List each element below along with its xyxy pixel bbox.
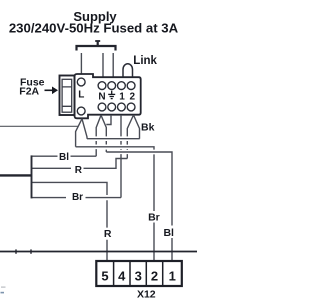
fuse pointer arrow shaft [45, 89, 54, 91]
pin 1 wire [120, 115, 122, 198]
svg-text:L: L [78, 90, 84, 101]
svg-text:5: 5 [101, 268, 108, 283]
terminal hole 2 bottom [127, 103, 135, 111]
wires leaving plug [76, 115, 172, 262]
svg-text:Bl: Bl [59, 152, 69, 163]
left bus vertical [31, 155, 33, 198]
left bus wires [32, 156, 128, 262]
terminal hole earth bottom [108, 103, 116, 111]
pin 2 wire left (tent C) [127, 115, 133, 159]
long horizontal line bottom [0, 251, 197, 253]
screw hole bottom L [77, 107, 85, 115]
svg-text:Br: Br [72, 192, 83, 203]
svg-text:Link: Link [133, 55, 157, 67]
svg-text:Bl: Bl [163, 227, 174, 239]
svg-text:1: 1 [169, 268, 176, 283]
fuse holder F2A outer [60, 76, 75, 116]
stray mark 1 [1, 287, 6, 288]
svg-text:4: 4 [118, 268, 126, 283]
stray mark 2 [1, 292, 5, 294]
supply plug body [75, 74, 141, 118]
supply wire N [102, 53, 104, 77]
Br wire [32, 197, 122, 199]
rail wire 2 to X12 pin 2 [76, 147, 154, 262]
terminal hole earth top [108, 82, 116, 90]
svg-text:F2A: F2A [19, 86, 39, 98]
fuse cartridge F2A [62, 79, 72, 112]
L pin wire left (tent A) [76, 119, 82, 147]
terminal hole 1 top [118, 82, 126, 90]
svg-text:Br: Br [148, 211, 160, 223]
svg-text:230/240V-50Hz Fused at 3A: 230/240V-50Hz Fused at 3A [9, 20, 179, 35]
Bl wire [32, 155, 97, 157]
terminal hole N bottom [98, 103, 106, 111]
svg-text:2: 2 [130, 91, 136, 102]
svg-text:N: N [98, 91, 105, 102]
supply wire L [80, 53, 82, 74]
tick 2 [30, 249, 32, 253]
R wire [32, 159, 128, 169]
connector X12 body [96, 261, 182, 286]
svg-text:R: R [104, 228, 112, 240]
terminal hole 1 bottom [118, 103, 126, 111]
supply wire earth [112, 53, 114, 77]
link loop terminals 1-2 [123, 64, 133, 77]
terminal hole N top [98, 82, 106, 90]
fuse cartridge end caps [62, 87, 72, 106]
N pin wire left (tent B) [96, 115, 101, 156]
N pin wire right [101, 115, 106, 152]
svg-text:2: 2 [151, 268, 158, 283]
pin 2 wire right [134, 115, 140, 139]
thick stub wire from left [0, 174, 32, 176]
wire to X12 pin 5 [32, 182, 108, 262]
long wire from left at y126 [0, 125, 78, 127]
screw hole top L [77, 78, 85, 86]
connector X12 cell dividers [114, 261, 163, 286]
earth symbol [108, 91, 115, 99]
svg-text:3: 3 [135, 268, 142, 283]
fuse pointer arrow head [52, 87, 58, 95]
svg-text:1: 1 [119, 91, 125, 102]
terminal hole 2 top [127, 82, 135, 90]
svg-text:X12: X12 [137, 288, 156, 300]
earth pin stub [106, 115, 111, 125]
L pin wire right [82, 119, 87, 139]
tick 1 [15, 249, 17, 253]
rail wire 1 [87, 138, 140, 140]
svg-text:R: R [75, 165, 83, 176]
supply cable bracket [77, 41, 116, 51]
rail wire 3 to X12 pin 1 [106, 152, 172, 262]
svg-text:Bk: Bk [141, 121, 155, 133]
